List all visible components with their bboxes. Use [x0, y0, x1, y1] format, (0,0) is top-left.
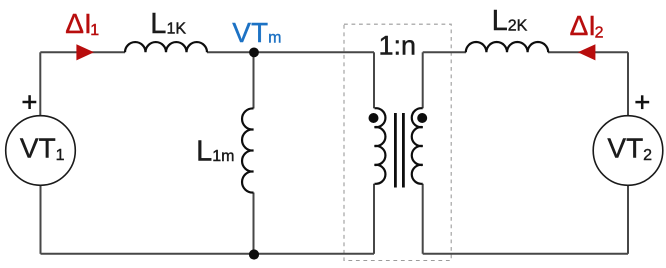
svg-text:1:n: 1:n: [379, 31, 417, 61]
